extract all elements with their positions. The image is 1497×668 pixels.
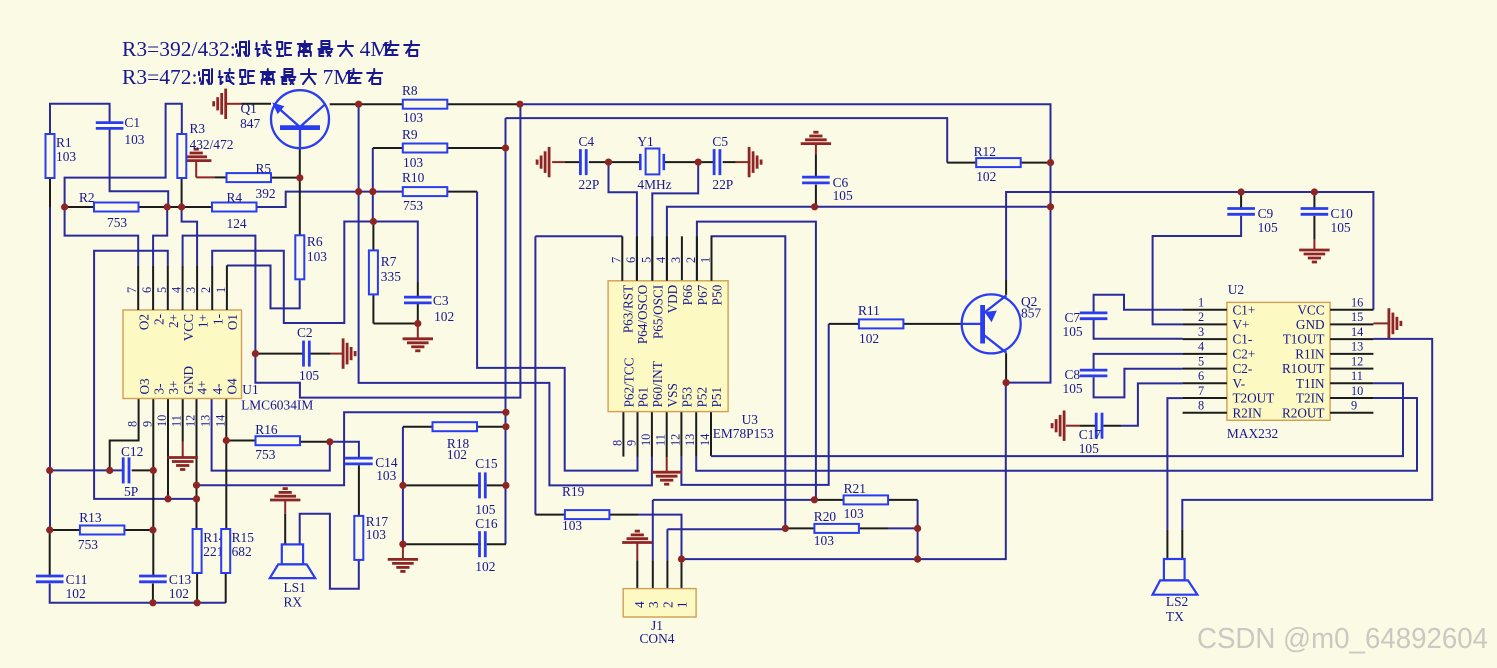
svg-text:2-: 2- (151, 314, 166, 325)
pin 7 of U2 (1183, 397, 1227, 399)
svg-text:102: 102 (434, 309, 454, 324)
wire U3 pin2 to R21.left (697, 222, 816, 500)
svg-text:9: 9 (625, 440, 639, 446)
wire R1 column to C12 (50, 469, 125, 471)
wire C17 left pin (1080, 425, 1096, 427)
junction (223, 437, 230, 444)
svg-text:R1IN: R1IN (1295, 347, 1325, 362)
pin 13 of U2 (1330, 353, 1373, 355)
svg-text:7: 7 (125, 287, 139, 293)
svg-text:105: 105 (1063, 381, 1083, 396)
svg-text:R10: R10 (402, 170, 425, 185)
junction (369, 188, 376, 195)
wire R21.right column (917, 500, 919, 559)
wire U3 pin7 column to R19.left (534, 236, 536, 514)
resistor R10 (402, 170, 447, 213)
junction (695, 159, 702, 166)
wire top rail to Q2 collector junction (520, 104, 1051, 382)
wire R7 top pin (372, 222, 374, 251)
svg-text:Y1: Y1 (637, 134, 653, 149)
speaker LS2 TX (1153, 559, 1198, 624)
wire U3 pin9 stub (637, 412, 639, 457)
svg-text:U2: U2 (1228, 282, 1244, 297)
wire U1 pin9 column to C13.top (152, 399, 154, 578)
pin 4 of U2 (1183, 353, 1227, 355)
ground right of C5 (749, 147, 761, 177)
wire R3.bottom to U1 pin3 (182, 207, 198, 265)
junction (326, 438, 333, 445)
capacitor C17 (1079, 413, 1102, 456)
ground left of Q1 (214, 89, 226, 119)
svg-text:753: 753 (78, 537, 98, 552)
svg-text:5: 5 (639, 257, 653, 263)
wire R19.right to J1 pin1 (638, 515, 682, 561)
svg-text:C2: C2 (297, 325, 313, 340)
ground left of C4 (537, 147, 549, 177)
svg-text:O1: O1 (225, 314, 240, 330)
svg-text:C10: C10 (1331, 206, 1354, 221)
wire R20.right to junction (888, 527, 918, 529)
svg-text:4MHz: 4MHz (637, 177, 671, 192)
wire R14 bottom pin (196, 573, 198, 603)
svg-text:14: 14 (213, 415, 227, 427)
svg-text:EM78P153: EM78P153 (713, 426, 774, 441)
wire U3 pin3 stub (681, 236, 683, 280)
svg-text:C2-: C2- (1233, 361, 1253, 376)
svg-text:6: 6 (1198, 369, 1204, 383)
svg-text:R1OUT: R1OUT (1282, 361, 1325, 376)
svg-text:3-: 3- (152, 384, 167, 395)
resistor R1 (46, 134, 77, 178)
ground right of C2 (343, 338, 355, 368)
wire U3 pin7 horizontal (535, 235, 622, 237)
svg-text:22P: 22P (712, 177, 733, 192)
svg-text:8: 8 (126, 421, 140, 427)
pin 16 of U2 (1330, 309, 1373, 311)
ground below C3 (403, 339, 433, 351)
junction (106, 467, 113, 474)
svg-text:7M: 7M (323, 65, 353, 89)
junction (782, 525, 789, 532)
wire U1 pin14 column to R15.top (225, 399, 227, 530)
svg-text:3: 3 (669, 257, 683, 263)
wire R21 right pin (888, 499, 917, 501)
svg-text:R1: R1 (56, 135, 72, 150)
capacitor C9 (1227, 206, 1278, 235)
wire R3.top to R2.left junction (65, 104, 182, 207)
svg-text:C1: C1 (124, 115, 140, 130)
wire Y1.left to U3 pin6 (609, 162, 637, 281)
wire R11 left pin (829, 323, 859, 325)
wire R13.left to C11.top (49, 530, 51, 577)
wire U1 pin8 to C12.left (110, 399, 139, 471)
svg-text:T1OUT: T1OUT (1283, 332, 1325, 347)
wire Q1 emitter pin (299, 148, 301, 178)
svg-text:MAX232: MAX232 (1227, 426, 1278, 441)
svg-text:C12: C12 (121, 444, 143, 459)
wire U1 pin11 ground stem (182, 442, 184, 457)
wire U3 pin11 ground stem (666, 457, 668, 471)
wire R7 bottom pin (372, 295, 374, 324)
wire U2 pin14 T1OUT to LS2.right (1182, 339, 1432, 530)
ground left of C17 (1052, 411, 1064, 441)
svg-text:103: 103 (124, 132, 144, 147)
svg-text:C15: C15 (475, 456, 498, 471)
wire to U1 pin7 (65, 207, 139, 265)
wire R6.top to Q1 emitter junction (299, 178, 301, 236)
wire U3 pin6 stub (636, 236, 638, 280)
wire C10 ground stem (1313, 240, 1315, 250)
svg-text:R2OUT: R2OUT (1282, 405, 1325, 420)
wire bottom bus C11-R15 (50, 584, 226, 603)
wire R19 right pin (609, 514, 638, 516)
svg-text:LS1: LS1 (284, 580, 306, 595)
wire C14.bottom to R17.top (358, 465, 360, 516)
capacitor C6 (802, 175, 853, 203)
wire Y1.right to U3 pin5 (652, 162, 698, 281)
svg-text:O3: O3 (137, 378, 152, 395)
svg-text:2: 2 (1198, 310, 1204, 324)
svg-text:11: 11 (170, 415, 184, 427)
capacitor C13 (139, 572, 191, 601)
wire R5.right pin (271, 177, 300, 179)
capacitor C7 (1063, 310, 1108, 339)
wire U3 pin12 stub (680, 412, 682, 457)
svg-text:12: 12 (668, 434, 682, 446)
wire U1 pin13 to R16.right (212, 399, 330, 471)
svg-text:1: 1 (699, 257, 713, 263)
wire R13 left pin (50, 529, 80, 531)
svg-text:GND: GND (181, 366, 196, 395)
wire LS2 left pin (1166, 530, 1168, 559)
wire R1 bottom pin (49, 178, 51, 208)
svg-text:R13: R13 (79, 510, 102, 525)
svg-text:6: 6 (624, 257, 638, 263)
wire J1 pin4 stub (636, 560, 638, 588)
op-amp U1 LMC6034IM (123, 287, 313, 427)
junction (355, 188, 362, 195)
wire R16 left pin (226, 440, 255, 442)
resistor R7 (369, 250, 401, 294)
wire C17.right to U2 pin6 (1121, 383, 1183, 425)
svg-text:15: 15 (1351, 310, 1363, 324)
junction (178, 203, 185, 210)
svg-text:4: 4 (654, 257, 668, 263)
capacitor C4 (579, 134, 600, 192)
wire C6 top lead (815, 154, 817, 178)
svg-text:5: 5 (1198, 354, 1204, 368)
svg-text:P64/OSCO: P64/OSCO (635, 285, 650, 344)
wire C10 top lead (1313, 192, 1315, 210)
wire C9 top lead (1240, 192, 1242, 210)
resistor R5 (227, 161, 276, 201)
wire R2-R4 row (65, 206, 212, 208)
svg-text:103: 103 (403, 155, 423, 170)
wire R8 left pin (359, 103, 403, 105)
resistor R17 (354, 514, 388, 560)
junction (399, 541, 406, 548)
resistor R18 (433, 422, 478, 462)
wire J1 pin3 stub (652, 560, 654, 588)
svg-text:103: 103 (562, 518, 582, 533)
ground above R5 (181, 149, 211, 160)
wire C17 right pin (1104, 425, 1122, 427)
svg-text:P51: P51 (709, 387, 724, 408)
wire U1 top pin stub (137, 265, 139, 310)
svg-text:103: 103 (403, 110, 423, 125)
wire R9 net column to C15/C16 (505, 118, 507, 544)
capacitor C12 (121, 444, 143, 499)
wire U1 pin12 column to R14.top (196, 399, 198, 530)
svg-text:VSS: VSS (665, 383, 680, 407)
svg-text:C17: C17 (1079, 427, 1102, 442)
wire VCC net U1 pin4 - C2 - R8.right (183, 104, 521, 397)
junction (678, 556, 685, 563)
wire R20 right pin (860, 527, 888, 529)
wire R9 left pin (373, 147, 403, 149)
junction (61, 203, 68, 210)
wire C5 left pin (698, 161, 715, 163)
resistor R9 (402, 127, 447, 170)
svg-text:C2+: C2+ (1233, 347, 1256, 362)
svg-text:10: 10 (155, 415, 169, 427)
capacitor C5 (712, 134, 733, 192)
svg-text:12: 12 (184, 415, 198, 427)
svg-text:3+: 3+ (166, 380, 181, 394)
transistor Q1 847 NPN (240, 90, 329, 148)
capacitor C1 (96, 115, 145, 147)
wire R8 right pin (447, 103, 520, 105)
svg-text:6: 6 (140, 287, 154, 293)
wire U3 pin5 stub (651, 236, 653, 280)
svg-text:U1: U1 (242, 382, 258, 397)
wire U1 top pin stub (226, 265, 228, 310)
svg-text:CON4: CON4 (640, 631, 675, 646)
svg-text:2: 2 (660, 601, 675, 608)
svg-text:R2IN: R2IN (1233, 405, 1263, 420)
svg-text:C4: C4 (579, 134, 595, 149)
svg-text:1: 1 (675, 601, 690, 608)
svg-text:C9: C9 (1258, 206, 1274, 221)
svg-text:VCC: VCC (1297, 302, 1324, 317)
IC U2 MAX232 (1183, 282, 1374, 441)
resistor R3 (177, 121, 233, 178)
wire LS1 ground stem (284, 500, 286, 514)
wire Q1.collector to R8 junction (330, 103, 359, 105)
wire U3 pin11 stub (666, 412, 668, 457)
wire R9.left riser (372, 148, 374, 222)
wire U1 pin1 to R6.bottom (227, 266, 300, 309)
wire LS1 left pin (284, 514, 286, 545)
svg-text:R5: R5 (256, 161, 272, 176)
svg-text:5: 5 (155, 287, 169, 293)
svg-text:103: 103 (814, 533, 834, 548)
wire U1 top pin stub (211, 265, 213, 310)
wire Q2 collector pin (1005, 353, 1007, 382)
svg-text:9: 9 (140, 421, 154, 427)
svg-text:GND: GND (1296, 317, 1325, 332)
svg-text:P67: P67 (695, 284, 710, 305)
wire R18 right pin (477, 426, 506, 428)
svg-text:3: 3 (1198, 325, 1204, 339)
svg-text:432/472: 432/472 (190, 137, 234, 152)
svg-text:753: 753 (255, 447, 275, 462)
svg-text:10: 10 (639, 434, 653, 446)
junction (914, 525, 921, 532)
junction (164, 495, 171, 502)
svg-text:1: 1 (214, 287, 228, 293)
wire C7.bottom to U2 pin3 (1094, 319, 1183, 339)
svg-text:R19: R19 (562, 484, 585, 499)
svg-text:C13: C13 (169, 572, 192, 587)
svg-text:CSDN @m0_64892604: CSDN @m0_64892604 (1197, 623, 1488, 655)
svg-text:22P: 22P (579, 177, 600, 192)
svg-text:R3=392/432:: R3=392/432: (122, 37, 236, 61)
svg-text:R16: R16 (255, 422, 278, 437)
svg-text:105: 105 (833, 188, 853, 203)
svg-text:C16: C16 (475, 516, 498, 531)
junction (399, 482, 406, 489)
wire Q1 net to U3 pin10 (359, 104, 652, 485)
wire U1 pin11 stub (182, 399, 184, 442)
capacitor C2 (297, 325, 319, 383)
svg-text:682: 682 (232, 544, 252, 559)
svg-text:LS2: LS2 (1166, 594, 1188, 609)
wire C15 right lead (487, 484, 506, 486)
svg-text:103: 103 (366, 527, 386, 542)
svg-text:R2: R2 (79, 190, 95, 205)
capacitor C14 (345, 455, 398, 483)
svg-text:R8: R8 (402, 83, 418, 98)
wire J1 pin2 riser (666, 529, 668, 560)
resistor R4 (212, 190, 257, 231)
svg-text:102: 102 (447, 447, 467, 462)
wire C5 right pin (723, 161, 736, 163)
svg-text:105: 105 (1079, 441, 1099, 456)
resistor R14 (193, 529, 226, 573)
junction (502, 482, 509, 489)
wire C12 right pin (132, 469, 154, 471)
wire U1 top pin stub (196, 265, 198, 310)
wire R10.right to U3 pin9 (477, 192, 637, 471)
svg-text:753: 753 (107, 215, 127, 230)
wire LS2 right pin (1181, 530, 1183, 559)
pin 1 of U2 (1183, 309, 1227, 311)
resistor R21 (844, 481, 889, 521)
pin 11 of U2 (1330, 382, 1373, 384)
svg-text:105: 105 (475, 502, 495, 517)
svg-text:16: 16 (1351, 296, 1363, 310)
wire U3 pin14 to U2 pin11 (711, 383, 1403, 456)
wire U3 pin4 stub (666, 236, 668, 280)
svg-text:753: 753 (403, 198, 423, 213)
svg-text:R6: R6 (307, 234, 323, 249)
wire R20 left pin (785, 527, 814, 529)
svg-text:R3: R3 (190, 121, 206, 136)
svg-text:R11: R11 (858, 303, 880, 318)
junction (46, 526, 53, 533)
svg-text:105: 105 (299, 368, 319, 383)
svg-text:847: 847 (240, 116, 260, 131)
wire ground stem from C5 (736, 161, 749, 163)
wire LS1.right to R17.bottom (300, 514, 359, 589)
wire R5.left pin (215, 176, 227, 178)
svg-text:335: 335 (381, 269, 401, 284)
wire R4.right to R10.left (256, 192, 403, 207)
pin 3 of U2 (1183, 338, 1227, 340)
svg-text:857: 857 (1021, 306, 1041, 321)
pin 9 of U2 (1330, 412, 1373, 414)
wire R15 bottom pin (225, 573, 227, 603)
svg-text:P66: P66 (680, 284, 695, 305)
svg-text:105: 105 (1331, 220, 1351, 235)
wire U1 pin5 to pin10/pin12 net (94, 251, 196, 499)
svg-text:O4: O4 (225, 378, 240, 395)
svg-text:103: 103 (844, 506, 864, 521)
svg-text:105: 105 (1258, 220, 1278, 235)
ground U1 pin11 (168, 458, 198, 470)
svg-text:392: 392 (256, 186, 276, 201)
svg-text:T2IN: T2IN (1296, 391, 1325, 406)
svg-text:14: 14 (698, 434, 712, 446)
crystal Y1 4MHz (637, 134, 671, 192)
svg-text:12: 12 (1351, 354, 1363, 368)
svg-text:2: 2 (199, 287, 213, 293)
junction (296, 174, 303, 181)
junction (811, 496, 818, 503)
node annotation line 2: R3=472 test distance 7M (122, 65, 382, 89)
junction (502, 423, 509, 430)
wire C3 bottom lead (417, 303, 419, 323)
wire R12 left pin (947, 162, 976, 164)
wire R19 left pin (535, 514, 565, 516)
wire R16 right pin (300, 441, 330, 443)
wire U1 top pin stub (167, 265, 169, 310)
svg-text:102: 102 (169, 586, 189, 601)
svg-text:103: 103 (56, 149, 76, 164)
capacitor C10 (1301, 206, 1354, 235)
wire U1 top pin stub (152, 265, 154, 310)
resistor R11 (858, 303, 903, 346)
wire U3 pin13 to U2 pin10 (696, 398, 1417, 471)
svg-text:102: 102 (859, 331, 879, 346)
junction (1238, 188, 1245, 195)
wire R1 bottom column (49, 208, 51, 530)
wire Q2 emitter to VCC rail / U2 pin16 (1006, 192, 1373, 310)
junction (1047, 203, 1054, 210)
junction (194, 599, 201, 606)
wire C2 left lead (255, 353, 303, 355)
wire R11.right to Q2 base (903, 323, 962, 325)
ground above LS1 (270, 489, 300, 500)
svg-text:P65/OSCI: P65/OSCI (651, 285, 666, 339)
svg-text:7: 7 (609, 257, 623, 263)
ground below C16 node (388, 559, 418, 571)
wire C6 bottom lead (815, 185, 817, 207)
wire ground stem to C4 (552, 161, 565, 163)
wire U3 pin2 stub (696, 236, 698, 280)
wire C10 bottom lead (1313, 216, 1315, 240)
wire U1 top pin stub (182, 265, 184, 310)
junction (164, 203, 171, 210)
svg-text:P60/INT: P60/INT (650, 361, 665, 407)
pin 2 of U2 (1183, 323, 1227, 325)
wire bottom net to Q2 collector (682, 383, 1006, 559)
svg-text:V+: V+ (1233, 317, 1250, 332)
wire C17 ground stem (1066, 425, 1080, 427)
svg-text:VCC: VCC (181, 314, 196, 341)
junction (1311, 188, 1318, 195)
